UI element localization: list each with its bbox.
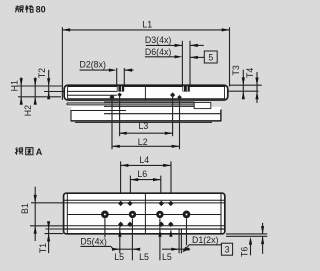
dimension T6 (right of bottom view) xyxy=(226,223,267,257)
dimension H2 (left) xyxy=(23,77,37,116)
svg-text:L2: L2 xyxy=(138,137,148,147)
extension line pair for D3/D6 holes xyxy=(182,41,190,85)
svg-text:B1: B1 xyxy=(20,203,30,214)
bottom view mounting hole dots top row xyxy=(118,201,174,206)
dimension T3 (right) xyxy=(231,65,245,99)
svg-text:D1(2x): D1(2x) xyxy=(192,235,218,245)
dimension B1 (left of bottom view) xyxy=(20,187,64,241)
svg-text:L5: L5 xyxy=(162,252,172,262)
svg-text:T6: T6 xyxy=(239,247,249,257)
title 规格 80 xyxy=(15,5,33,13)
hole center dots on side view xyxy=(109,92,181,99)
dimension T1 (left of bottom view) xyxy=(38,221,63,253)
svg-text:A: A xyxy=(36,147,43,157)
bottom view mounting hole dots bottom row xyxy=(118,222,174,227)
svg-text:L3: L3 xyxy=(139,121,149,131)
svg-text:5: 5 xyxy=(208,52,213,62)
piston rod shaft lines xyxy=(67,87,117,99)
svg-text:L4: L4 xyxy=(139,155,149,165)
reference lines left xyxy=(17,86,64,97)
screw plug left (D2) xyxy=(117,86,124,92)
svg-text:80: 80 xyxy=(36,5,46,15)
title 视图 A xyxy=(15,147,33,154)
svg-text:D6(4x): D6(4x) xyxy=(145,47,171,57)
label D6(4x) with leader and boxed 5 xyxy=(145,47,217,63)
svg-text:D3(4x): D3(4x) xyxy=(145,35,171,45)
bottom view center holes row xyxy=(101,211,190,219)
label D5(4x) with leader xyxy=(80,236,113,249)
svg-text:D5(4x): D5(4x) xyxy=(80,236,106,246)
bottom view body xyxy=(63,193,225,234)
label D2(8x) with leader xyxy=(80,59,134,85)
svg-text:L1: L1 xyxy=(142,20,152,30)
dimension L4 xyxy=(121,155,171,203)
svg-text:L5: L5 xyxy=(139,252,149,262)
plate lines xyxy=(67,102,194,107)
svg-text:T4: T4 xyxy=(245,68,255,78)
dimension L2 xyxy=(112,137,180,148)
label D1(2x) with leader and boxed 3 xyxy=(182,235,232,255)
side view mid parting line xyxy=(144,86,146,109)
base block xyxy=(71,110,221,123)
svg-text:T1: T1 xyxy=(38,243,48,253)
leader arrowheads at bottom holes xyxy=(118,229,172,237)
side view: slide table bar xyxy=(64,85,228,100)
svg-text:H2: H2 xyxy=(23,105,33,116)
dimension L3 xyxy=(119,121,173,135)
svg-text:T2: T2 xyxy=(37,68,47,78)
svg-text:D2(8x): D2(8x) xyxy=(80,59,106,69)
side view lower plates xyxy=(67,101,221,121)
extension lines from dots xyxy=(112,95,180,150)
dimension T4 (right) xyxy=(245,68,259,103)
extension lines below bottom view xyxy=(105,218,187,260)
label D3(4x) with leader xyxy=(145,35,204,47)
dimension H1 (left) xyxy=(9,77,23,105)
screw plug right (D3/D6) xyxy=(182,86,189,92)
svg-text:3: 3 xyxy=(225,245,230,255)
dimension L1 xyxy=(62,20,229,101)
right rod stub lines xyxy=(228,85,261,91)
svg-text:L6: L6 xyxy=(137,169,147,179)
dimension L5 row xyxy=(112,248,190,262)
svg-text:L5: L5 xyxy=(114,252,124,262)
dimension L6 xyxy=(130,169,160,203)
svg-text:T3: T3 xyxy=(231,65,241,75)
dimension T2 (left) xyxy=(37,68,50,99)
